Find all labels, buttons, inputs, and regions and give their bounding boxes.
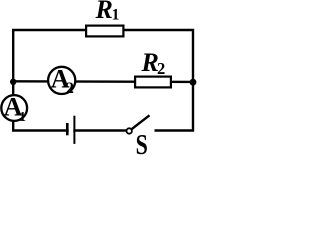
svg-text:1: 1 — [112, 7, 120, 24]
svg-text:S: S — [136, 130, 148, 155]
switch gap mask — [132, 127, 155, 135]
switch S pivot contact — [127, 128, 132, 133]
svg-text:2: 2 — [66, 80, 74, 97]
svg-text:2: 2 — [157, 59, 165, 78]
ammeter A2 (circle) — [48, 67, 75, 94]
node B (right junction dot) — [190, 79, 197, 86]
node A (left junction dot) — [10, 79, 16, 85]
svg-text:1: 1 — [19, 110, 26, 125]
svg-text:R: R — [95, 0, 113, 24]
battery short plate (negative) — [66, 123, 69, 135]
wire: middle branch from node A to node B — [13, 80, 193, 83]
wire: outer loop (top, right, bottom, left) — [13, 30, 193, 131]
ammeter A1 (circle) — [1, 95, 27, 121]
battery long plate (positive) — [73, 116, 75, 144]
battery gap mask — [69, 127, 74, 136]
resistor R1 (box) — [86, 26, 123, 37]
resistor R2 (box) — [135, 77, 171, 88]
switch S blade — [132, 115, 150, 129]
